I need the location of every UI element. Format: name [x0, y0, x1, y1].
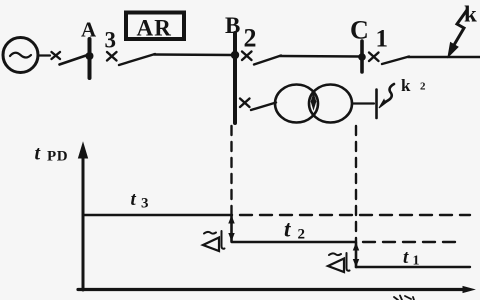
breaker 1: [369, 53, 379, 62]
dashed vertical from transformer to graph: [355, 126, 357, 241]
svg-text:t: t: [131, 189, 137, 210]
x axis: [78, 288, 466, 291]
svg-text:2: 2: [244, 24, 257, 53]
dashed vertical from bus B to graph: [230, 126, 232, 214]
svg-text:A: A: [81, 18, 97, 42]
AR box: [126, 13, 184, 40]
cut caption mark below axis: [394, 296, 414, 300]
svg-text:3: 3: [105, 28, 117, 53]
fault k1 lightning arrow: [454, 10, 467, 45]
svg-text:B: B: [225, 13, 240, 38]
y axis: [82, 153, 85, 290]
breaker 2: [242, 52, 252, 61]
t1 level line: [356, 266, 470, 268]
svg-text:k: k: [401, 76, 411, 95]
svg-text:t: t: [403, 247, 409, 268]
wire breaker 3 to bus B: [154, 53, 233, 56]
wire bus C to right edge: [408, 56, 480, 58]
bus C: [360, 41, 364, 72]
breaker 3: [107, 52, 117, 61]
t3 dashed continuation: [240, 214, 470, 216]
svg-text:1: 1: [413, 254, 420, 269]
generator G: [3, 38, 38, 73]
step at breaker 2 position: [230, 215, 233, 241]
svg-text:PD: PD: [47, 149, 68, 165]
svg-text:1: 1: [376, 26, 389, 53]
svg-text:2: 2: [420, 81, 426, 93]
terminal bar at k2: [375, 90, 378, 119]
svg-text:3: 3: [141, 196, 149, 212]
transformer T winding 2: [309, 85, 352, 123]
svg-text:C: C: [350, 16, 369, 45]
t2 level line: [232, 241, 357, 243]
delta-t mark 2: [328, 259, 344, 273]
transformer center mark: [311, 94, 316, 109]
svg-text:k: k: [464, 2, 477, 27]
disconnect switch between generator and A: [52, 52, 61, 59]
bus B: [233, 33, 237, 123]
fault k2 lightning arrow: [385, 84, 394, 102]
wire generator to switch: [38, 54, 51, 56]
svg-text:2: 2: [298, 227, 306, 243]
transformer T winding 1: [275, 85, 318, 123]
delta-t mark 1: [203, 238, 219, 252]
wire transformer to terminal bar: [352, 102, 374, 104]
branch breaker at bus B: [240, 99, 250, 108]
t2 dashed continuation: [363, 241, 456, 243]
t3 level line: [83, 214, 232, 216]
wire bus B to bus C: [280, 55, 360, 58]
svg-text:t: t: [284, 217, 291, 242]
svg-text:AR: AR: [137, 16, 173, 41]
step at breaker 1 position: [355, 242, 358, 267]
bus A: [88, 39, 92, 78]
